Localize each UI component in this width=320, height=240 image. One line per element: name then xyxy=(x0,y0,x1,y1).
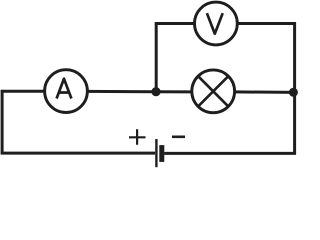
junction node at voltmeter branch xyxy=(151,87,160,96)
battery positive plate (long thin) xyxy=(155,139,157,167)
wire top left (branch corner to voltmeter) xyxy=(155,22,195,25)
battery negative plate (short thick) xyxy=(159,145,164,162)
wire left horizontal (left rail to ammeter) xyxy=(1,90,45,93)
label + (battery positive) xyxy=(129,129,146,145)
wire left vertical rail xyxy=(1,90,4,154)
wire top right (voltmeter to right rail) xyxy=(237,22,296,25)
wire lamp to right rail xyxy=(234,90,294,94)
wire voltmeter branch vertical xyxy=(155,22,158,92)
junction node at right rail xyxy=(289,88,298,97)
wire bottom right (battery to right rail) xyxy=(164,152,296,155)
wire bottom left (left rail to battery) xyxy=(1,152,155,155)
label - (battery negative) xyxy=(172,136,185,139)
ammeter A xyxy=(45,70,88,113)
voltmeter V xyxy=(195,2,238,45)
wire right vertical rail xyxy=(293,22,296,154)
wire middle (ammeter to lamp) xyxy=(87,90,192,94)
lamp (circle with X) xyxy=(192,70,235,113)
